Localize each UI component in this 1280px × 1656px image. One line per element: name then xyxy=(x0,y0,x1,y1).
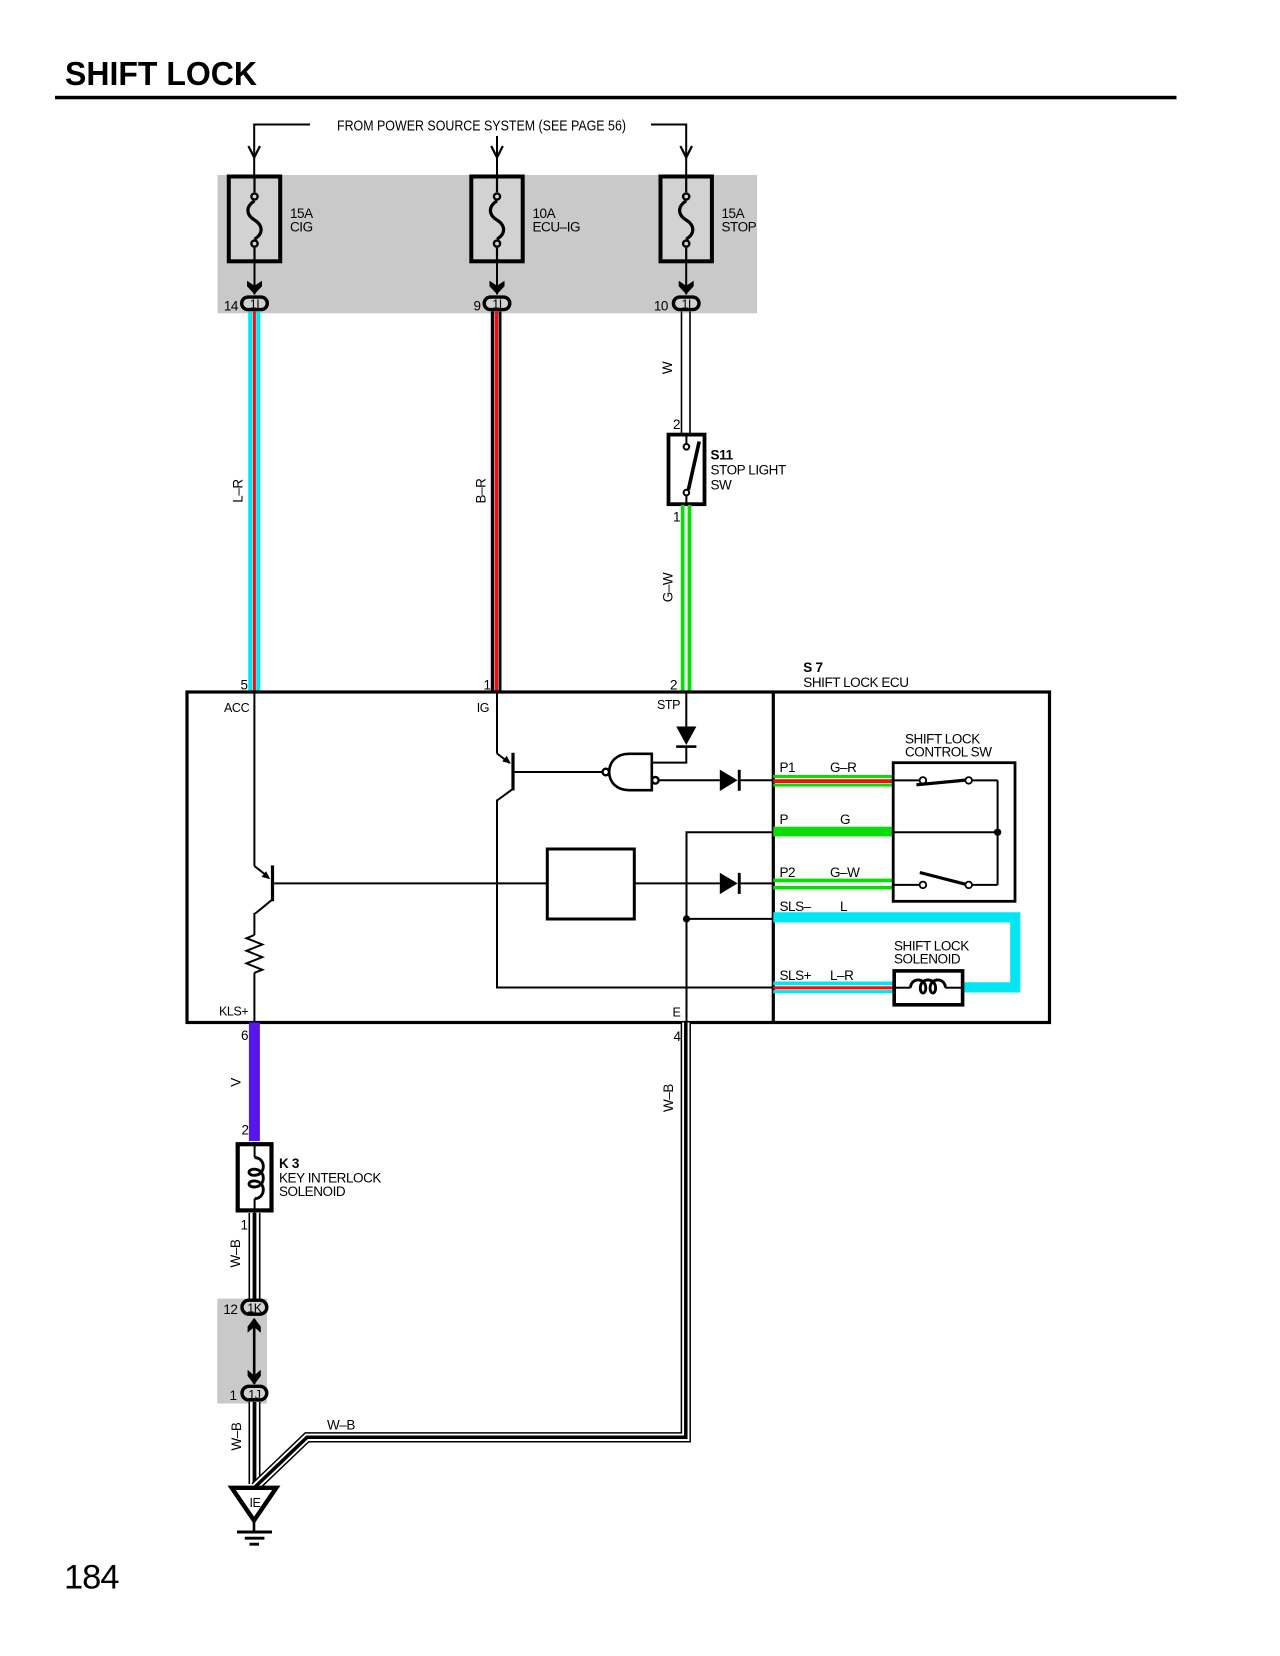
svg-text:STOP LIGHT: STOP LIGHT xyxy=(711,463,786,478)
wire Q1 emitter to resistor xyxy=(253,913,255,935)
wire W-B from K3 to 1K xyxy=(249,1213,261,1301)
ground IE xyxy=(232,1488,277,1544)
wire SLS- internal xyxy=(687,918,774,920)
svg-text:9: 9 xyxy=(473,299,480,314)
ECU internal divider xyxy=(772,692,775,1023)
wire P internal from divider down to E xyxy=(687,832,774,1022)
wire control block to diode D3 xyxy=(634,882,720,884)
svg-text:1: 1 xyxy=(673,510,680,525)
wire V violet from KLS+ to K3 xyxy=(249,1023,260,1142)
svg-text:FROM POWER SOURCE SYSTEM (SEE: FROM POWER SOURCE SYSTEM (SEE PAGE 56) xyxy=(337,119,626,135)
wire SLS- L cyan thick xyxy=(773,917,1015,987)
svg-text:L–R: L–R xyxy=(231,479,246,503)
resistor R1 xyxy=(246,935,262,973)
wire fuse F3 to connector xyxy=(679,263,694,294)
svg-text:SOLENOID: SOLENOID xyxy=(279,1184,346,1199)
junction node SLS- xyxy=(683,915,690,922)
svg-text:KLS+: KLS+ xyxy=(219,1005,248,1019)
wire fuse F2 to connector xyxy=(490,263,505,294)
svg-text:V: V xyxy=(229,1078,244,1087)
svg-text:1: 1 xyxy=(483,678,490,693)
logic gate U1 xyxy=(603,754,659,790)
wire ACC internal xyxy=(253,692,255,866)
fuse F3 15A STOP xyxy=(661,175,712,264)
svg-text:P: P xyxy=(780,812,789,827)
svg-text:P1: P1 xyxy=(780,760,796,775)
svg-text:SHIFT LOCK ECU: SHIFT LOCK ECU xyxy=(803,675,908,690)
svg-text:12: 12 xyxy=(223,1302,237,1317)
wire between 1K and 1J with arrows xyxy=(248,1318,261,1385)
wire L-R cyan/red from 1I to ACC xyxy=(248,312,260,693)
svg-text:1I: 1I xyxy=(681,298,690,312)
svg-text:SW: SW xyxy=(711,478,733,493)
transistor Q1 xyxy=(254,865,274,913)
svg-text:B–R: B–R xyxy=(473,478,488,504)
svg-text:IG: IG xyxy=(477,701,489,715)
diode D3 to P2 xyxy=(720,873,774,894)
svg-text:6: 6 xyxy=(241,1028,248,1043)
connector 1I pin 10 xyxy=(673,297,699,312)
wire P1 G-R striped xyxy=(773,775,893,787)
connector 1J pin 1 xyxy=(242,1386,267,1402)
wire Q1 base to control block xyxy=(274,882,547,884)
svg-text:W–B: W–B xyxy=(229,1422,244,1450)
wire fuse F1 to connector xyxy=(247,263,262,294)
wire gate output to diode D2 xyxy=(659,779,720,781)
svg-text:1I: 1I xyxy=(492,298,501,312)
svg-text:G: G xyxy=(840,812,850,827)
control block U2 xyxy=(547,849,634,919)
fuse F1 15A CIG xyxy=(229,175,280,264)
solenoid K3 key interlock box xyxy=(238,1142,272,1213)
title SHIFT LOCK xyxy=(65,56,258,93)
svg-text:14: 14 xyxy=(224,299,239,314)
wire G-W green from S11 to STP xyxy=(681,505,692,693)
wire gate upper input from STP diode xyxy=(652,747,687,763)
svg-text:1I: 1I xyxy=(250,298,259,312)
svg-text:G–W: G–W xyxy=(830,865,860,880)
shift lock control switch box xyxy=(893,763,1015,902)
svg-text:ECU–IG: ECU–IG xyxy=(533,220,581,235)
wire Q2 emitter down to SLS+ node xyxy=(497,800,773,988)
junction node switch common xyxy=(994,829,1001,836)
svg-text:W: W xyxy=(660,361,675,374)
header note FROM POWER SOURCE SYSTEM xyxy=(337,119,626,135)
fuse F2 10A ECU-IG xyxy=(471,175,522,264)
wire resistor to KLS+ pin xyxy=(253,973,255,1023)
wire P G solid green xyxy=(773,827,893,837)
svg-text:S11: S11 xyxy=(711,448,734,463)
svg-text:IE: IE xyxy=(249,1496,260,1510)
svg-text:SLS–: SLS– xyxy=(780,899,812,914)
svg-text:S 7: S 7 xyxy=(803,660,822,675)
svg-text:ACC: ACC xyxy=(224,701,250,715)
wire from power source middle xyxy=(496,136,498,176)
connector 1I pin 9 xyxy=(484,297,510,312)
switch SW2 P2 contact xyxy=(893,873,997,889)
svg-text:184: 184 xyxy=(64,1559,119,1597)
svg-text:W–B: W–B xyxy=(327,1418,355,1433)
ECU box S7 xyxy=(187,692,1050,1023)
svg-text:1: 1 xyxy=(240,1218,247,1233)
svg-text:E: E xyxy=(673,1006,681,1020)
junction block 1I shaded band xyxy=(218,175,758,313)
svg-text:G–W: G–W xyxy=(660,572,675,602)
svg-text:1: 1 xyxy=(229,1388,236,1403)
wire Q2 base to gate xyxy=(515,771,603,773)
connector 1I pin 14 xyxy=(242,297,268,312)
svg-text:L–R: L–R xyxy=(830,968,854,983)
wire SLS+ L-R striped xyxy=(773,982,893,994)
arrowhead into ECU-IG fuse xyxy=(491,146,503,158)
svg-text:1K: 1K xyxy=(247,1302,262,1316)
solenoid L1 shift lock solenoid box xyxy=(894,971,962,1005)
transistor Q2 xyxy=(497,753,515,801)
wire from power source left bracket xyxy=(254,125,310,177)
connector 1K pin 12 xyxy=(242,1300,267,1315)
svg-text:4: 4 xyxy=(673,1029,681,1044)
svg-text:SLS+: SLS+ xyxy=(780,968,812,983)
svg-text:CIG: CIG xyxy=(290,220,313,235)
svg-text:10: 10 xyxy=(654,299,668,314)
switch SW1 P1 contact xyxy=(893,777,997,785)
svg-text:P2: P2 xyxy=(780,865,796,880)
svg-text:W–B: W–B xyxy=(661,1084,676,1112)
svg-text:STOP: STOP xyxy=(722,220,757,235)
svg-text:CONTROL SW: CONTROL SW xyxy=(905,745,992,760)
svg-text:1J: 1J xyxy=(248,1388,260,1402)
diode D2 to P1 xyxy=(720,770,774,791)
wire W-B from E pin long run xyxy=(255,1023,686,1488)
diode D1 at STP xyxy=(676,727,696,748)
svg-text:G–R: G–R xyxy=(830,760,857,775)
wire P2 G-W striped xyxy=(773,879,893,890)
svg-text:SOLENOID: SOLENOID xyxy=(894,952,961,967)
connector shaded band 1K 1J xyxy=(217,1299,267,1404)
svg-text:5: 5 xyxy=(240,678,247,693)
wire IG internal xyxy=(496,692,498,754)
svg-text:L: L xyxy=(840,899,848,914)
wire P common xyxy=(893,831,997,833)
wire B-R black/red from 1I to IG xyxy=(491,312,502,693)
wire from power source right bracket xyxy=(651,125,686,177)
arrowhead into STOP fuse xyxy=(680,146,692,158)
svg-text:STP: STP xyxy=(657,698,680,712)
switch common vertical wire xyxy=(997,780,999,885)
arrowhead into CIG fuse xyxy=(248,146,260,158)
svg-text:2: 2 xyxy=(673,417,680,432)
svg-text:2: 2 xyxy=(670,678,677,693)
switch S11 stop light SW xyxy=(669,435,705,505)
svg-text:K 3: K 3 xyxy=(279,1156,300,1171)
svg-text:SHIFT LOCK: SHIFT LOCK xyxy=(65,56,258,93)
wire STP internal xyxy=(685,692,687,727)
wire W white from 1I to stop light switch xyxy=(681,312,691,435)
title rule xyxy=(55,96,1177,100)
svg-text:2: 2 xyxy=(241,1123,248,1138)
svg-text:W–B: W–B xyxy=(228,1239,243,1267)
wire W-B from 1J to ground xyxy=(249,1402,261,1484)
